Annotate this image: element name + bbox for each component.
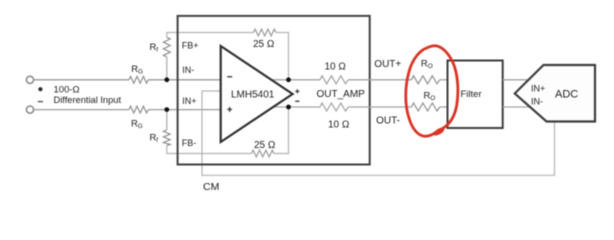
- svg-text:G: G: [138, 68, 143, 75]
- minus mark output: [295, 101, 299, 102]
- wire RO1 to filter: [440, 79, 448, 81]
- resistor Rf2: [163, 130, 170, 146]
- minus mark input: [38, 101, 43, 102]
- resistor 10 ohm bottom: [320, 103, 348, 111]
- wire RG1 to IN-: [148, 79, 221, 81]
- svg-text:Filter: Filter: [461, 89, 482, 100]
- svg-text:10 Ω: 10 Ω: [325, 62, 347, 73]
- svg-text:25 Ω: 25 Ω: [253, 39, 275, 50]
- wire OUT+ from triangle to filter: [271, 79, 320, 81]
- svg-text:100-Ω: 100-Ω: [54, 84, 80, 95]
- wire input- to RG2: [34, 109, 129, 111]
- svg-text:f: f: [156, 47, 158, 54]
- svg-text:IN-: IN-: [182, 65, 194, 75]
- svg-text:IN+: IN+: [182, 96, 196, 106]
- wire RG2 to IN+: [148, 109, 221, 111]
- wire 25 ohm bottom to OUT- node: [274, 107, 289, 154]
- junction node OUT+: [286, 77, 291, 82]
- resistor 10 ohm top: [320, 76, 348, 84]
- svg-text:IN-: IN-: [531, 96, 543, 106]
- feedback net FB- : Rf2 branch and 25 ohm loop: [166, 110, 168, 130]
- amp package box LMH5401: [178, 16, 370, 165]
- wire 10 ohm bottom to RO2: [348, 106, 411, 108]
- wire Rf2 bottom to FB- line: [167, 146, 252, 154]
- wire Rf1 top to FB+ line: [167, 33, 254, 38]
- svg-text:10 Ω: 10 Ω: [328, 119, 350, 130]
- svg-text:FB+: FB+: [182, 41, 199, 51]
- red annotation circle around RO resistors: [406, 46, 458, 136]
- resistor 25 ohm top: [254, 29, 276, 36]
- svg-text:f: f: [156, 137, 158, 144]
- resistor RO2: [412, 103, 440, 111]
- resistor 25 ohm bottom: [252, 150, 274, 157]
- wire filter to ADC IN-: [503, 106, 530, 108]
- resistor RG1: [129, 76, 148, 83]
- svg-text:OUT-: OUT-: [376, 116, 400, 127]
- op-amp triangle U1 LMH5401: [221, 46, 293, 142]
- wire 25 ohm top to OUT+ node: [276, 33, 289, 80]
- junction node IN-: [164, 77, 169, 82]
- input terminal positive: [26, 76, 33, 83]
- CM net from amp to ADC: [202, 91, 555, 175]
- wire OUT- from triangle to filter: [273, 106, 320, 108]
- filter box: [448, 61, 503, 129]
- svg-text:25 Ω: 25 Ω: [254, 140, 276, 151]
- svg-text:O: O: [428, 63, 433, 70]
- svg-text:CM: CM: [203, 181, 219, 193]
- svg-text:FB-: FB-: [182, 138, 197, 148]
- junction node IN+: [164, 107, 169, 112]
- wire 10 ohm top to RO1: [348, 79, 411, 81]
- junction node OUT-: [286, 105, 291, 110]
- svg-text:Differential Input: Differential Input: [54, 95, 122, 105]
- minus mark inverting input: [227, 76, 232, 77]
- input terminal negative: [26, 106, 33, 113]
- plus mark input: [38, 87, 42, 91]
- wire filter to ADC IN+: [503, 79, 529, 81]
- ADC block: [515, 65, 595, 122]
- svg-text:OUT_AMP: OUT_AMP: [317, 89, 366, 100]
- wire input+ to RG1: [34, 79, 129, 81]
- plus mark noninverting input: [227, 107, 232, 112]
- svg-text:O: O: [430, 95, 435, 102]
- svg-text:G: G: [138, 123, 143, 130]
- wire RO2 to filter: [440, 106, 448, 108]
- resistor RG2: [129, 106, 148, 113]
- svg-text:ADC: ADC: [555, 89, 578, 101]
- svg-text:OUT+: OUT+: [374, 59, 401, 70]
- feedback net FB+ : Rf1 branch and 25 ohm loop: [166, 57, 168, 80]
- resistor RO1: [412, 76, 440, 84]
- resistor Rf1: [163, 37, 170, 57]
- plus mark output: [295, 89, 299, 93]
- svg-text:LMH5401: LMH5401: [231, 89, 275, 100]
- svg-text:IN+: IN+: [531, 83, 545, 93]
